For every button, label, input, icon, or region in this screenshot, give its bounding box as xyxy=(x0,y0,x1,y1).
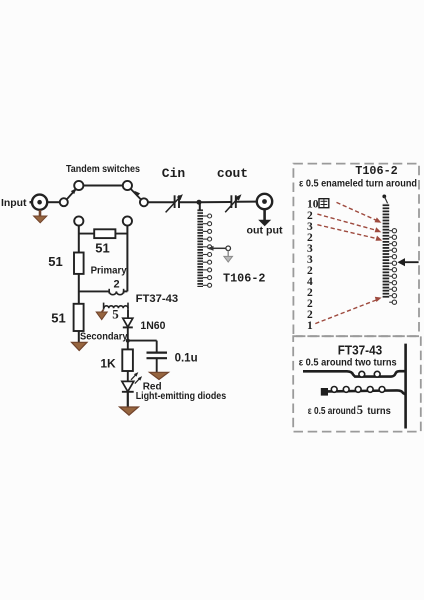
callout arrow a4 xyxy=(315,297,381,324)
wire lead (vertical right) xyxy=(404,344,407,429)
svg-text:turns: turns xyxy=(367,406,391,417)
tap wire on L1 xyxy=(207,246,231,251)
switch S1b top contact xyxy=(123,181,132,190)
svg-text:Tandem switches: Tandem switches xyxy=(66,164,140,175)
ground (input) xyxy=(34,210,47,223)
wire diode to junction xyxy=(127,327,129,341)
capacitor Cin (variable) xyxy=(166,194,183,212)
wire junction row to capacitor xyxy=(127,340,157,342)
svg-text:T106-2: T106-2 xyxy=(223,272,265,286)
svg-text:cout: cout xyxy=(217,166,248,181)
wire LED to ground xyxy=(127,392,129,408)
svg-text:1N60: 1N60 xyxy=(140,320,165,332)
resistor R4 1K xyxy=(122,341,133,382)
switch S1a top contact xyxy=(74,181,83,190)
wire left branch lower xyxy=(78,274,80,304)
svg-text:FT37-43: FT37-43 xyxy=(136,293,179,305)
switch S1a pole xyxy=(60,198,68,206)
svg-text:ε 0.5 enameled turn around: ε 0.5 enameled turn around xyxy=(299,178,417,189)
svg-text:51: 51 xyxy=(51,311,65,326)
wire input to switch S1a xyxy=(47,201,59,203)
svg-text:5: 5 xyxy=(112,307,119,322)
wire right branch down xyxy=(126,226,128,292)
wire R1 row xyxy=(79,233,128,235)
ground (below LED) xyxy=(120,407,139,415)
wire switch to Cin xyxy=(148,201,174,203)
LED D2 (red) xyxy=(122,372,142,392)
arrow pointer (black, points left at coil) xyxy=(397,258,418,266)
transformer T2 FT37-43 primary (2 turns) xyxy=(109,289,127,295)
svg-text:1: 1 xyxy=(307,320,313,332)
svg-text:51: 51 xyxy=(48,254,62,269)
svg-text:5: 5 xyxy=(357,403,363,417)
diode D1 1N60 xyxy=(123,318,133,327)
wire node to cout xyxy=(199,201,231,203)
glyph turns (boxed CJK after 10) xyxy=(319,199,329,208)
panel box T106-2 (dashed) xyxy=(293,164,419,337)
resistor R1 51 (horizontal) xyxy=(94,229,115,238)
svg-text:Primary: Primary xyxy=(91,266,127,277)
switch S1b lower contact xyxy=(123,216,132,225)
svg-text:Secondary: Secondary xyxy=(80,332,128,343)
ground (below R3) xyxy=(72,342,88,350)
switch S1a lower contact xyxy=(74,216,83,225)
capacitor C1 0.1u xyxy=(147,341,168,373)
wire bottom row to primary xyxy=(79,290,109,292)
connector J1 Input xyxy=(30,195,48,210)
switch S1a blade xyxy=(67,188,77,199)
svg-text:0.1u: 0.1u xyxy=(175,353,198,365)
wire left branch down xyxy=(78,226,80,253)
panel box FT37-43 (dashed) xyxy=(293,336,421,431)
ground (secondary left) xyxy=(96,310,107,320)
capacitor cout (variable) xyxy=(225,194,241,212)
svg-text:ε 0.5 around: ε 0.5 around xyxy=(308,406,356,417)
svg-text:Light-emitting diodes: Light-emitting diodes xyxy=(136,390,227,402)
winding diagram two turns xyxy=(303,371,406,377)
wire bypass between top contacts xyxy=(84,184,123,186)
callout arrow a2 xyxy=(317,214,381,232)
svg-text:2: 2 xyxy=(113,279,119,291)
node (junction at top of L1) xyxy=(197,200,202,205)
node (junction below diode) xyxy=(126,339,130,343)
winding diagram five turns xyxy=(321,387,406,396)
transformer T2 FT37-43 secondary (5 turns) xyxy=(104,303,128,310)
svg-text:T106-2: T106-2 xyxy=(355,164,397,178)
switch S1b pole xyxy=(140,198,148,206)
svg-text:ε 0.5 around two turns: ε 0.5 around two turns xyxy=(299,357,397,368)
svg-text:FT37-43: FT37-43 xyxy=(338,344,383,358)
wire R3 to ground xyxy=(78,331,80,343)
ground (tap, gray) xyxy=(224,251,233,262)
switch S1b blade xyxy=(131,189,141,199)
svg-text:1K: 1K xyxy=(100,357,116,371)
callout arrow a1 xyxy=(337,202,382,222)
svg-text:51: 51 xyxy=(95,241,109,256)
connector J2 output xyxy=(257,194,272,209)
svg-text:Cin: Cin xyxy=(162,166,186,181)
inductor L1 T106-2 (main coil) xyxy=(197,202,211,287)
arrow output (down) xyxy=(258,209,271,226)
wire cout to output connector xyxy=(236,201,256,203)
coil winding diagram T106-2 xyxy=(382,195,396,305)
wire secondary to diode xyxy=(127,310,129,319)
svg-text:Input: Input xyxy=(1,197,27,209)
callout arrow a3 xyxy=(317,225,382,241)
svg-text:out put: out put xyxy=(247,226,284,237)
ground (below C1) xyxy=(150,372,169,379)
resistor R2 51 (vertical) xyxy=(74,253,84,274)
turns list numbers xyxy=(307,199,319,333)
wire Cin to node xyxy=(179,201,199,203)
resistor R3 51 (lower-left vertical) xyxy=(74,304,84,331)
